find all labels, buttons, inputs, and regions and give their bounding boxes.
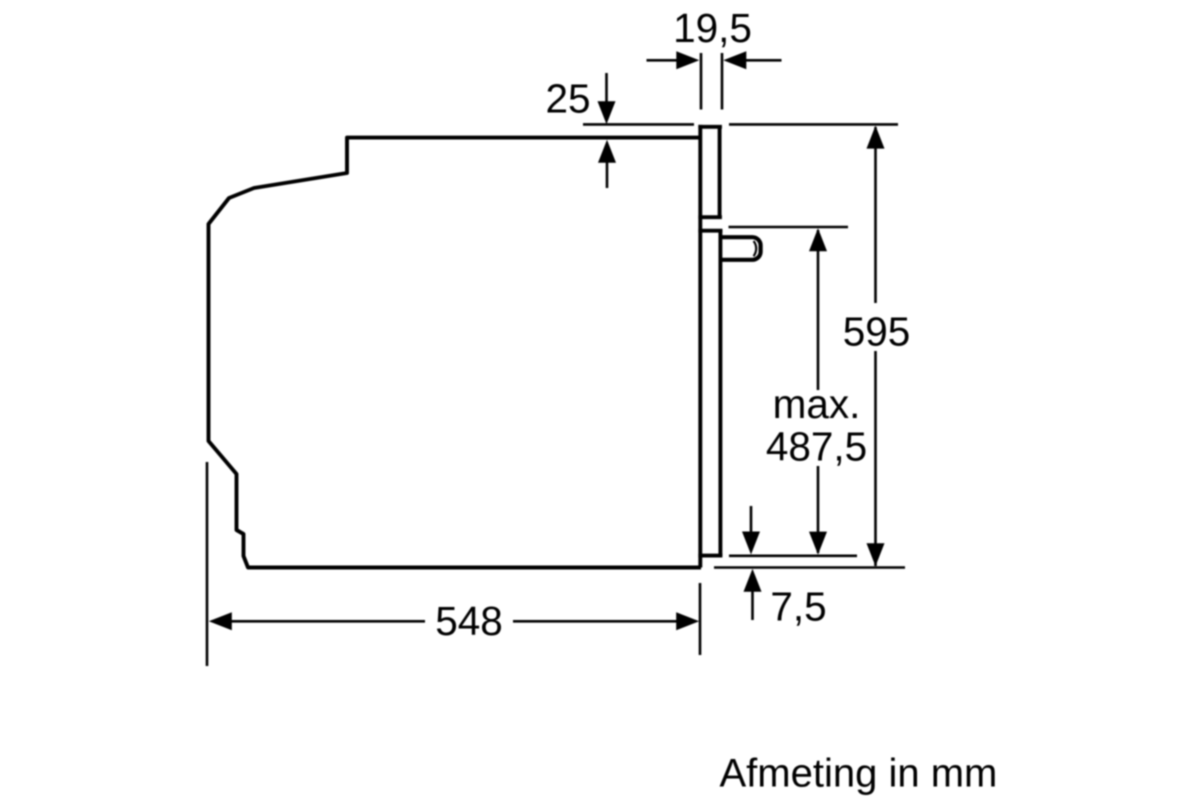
- max. 487,5 top extension line: [729, 226, 849, 229]
- svg-text:Afmeting in mm: Afmeting in mm: [720, 752, 998, 796]
- 19,5 left arrow shaft: [647, 59, 679, 62]
- door handle: [722, 237, 761, 260]
- 7,5 upper arrowhead (down): [742, 532, 760, 555]
- 595 bottom arrowhead (down): [867, 543, 885, 566]
- appliance body outline: [209, 138, 702, 568]
- svg-text:7,5: 7,5: [770, 584, 826, 630]
- 25 lower arrow shaft: [606, 160, 609, 188]
- 7,5 lower arrowhead (up): [744, 569, 762, 592]
- svg-text:25: 25: [545, 76, 590, 122]
- 487,5 dimension line upper segment: [817, 230, 820, 390]
- door upper section bottom seam: [698, 215, 722, 219]
- 487,5 top arrowhead (up): [809, 228, 827, 251]
- door front panel top edge: [698, 125, 722, 129]
- 19,5 right extension line: [721, 53, 724, 110]
- 19,5 left arrowhead: [676, 51, 699, 69]
- svg-text:19,5: 19,5: [673, 5, 752, 51]
- 7,5 lower arrow shaft: [751, 590, 754, 620]
- door handle end-cap inner arc: [754, 241, 757, 256]
- 487,5 dimension line lower segment: [817, 466, 820, 553]
- lower extension line at body bottom (7,5 lower reference): [714, 566, 905, 569]
- 595 dimension line lower segment: [874, 351, 877, 566]
- 19,5 right arrow shaft: [745, 59, 782, 62]
- lower extension line at door bottom (7,5 upper reference): [729, 554, 857, 557]
- svg-text:487,5: 487,5: [766, 424, 867, 470]
- 548 left extension line: [206, 462, 209, 666]
- 487,5 bottom arrowhead (down): [809, 532, 827, 555]
- svg-text:548: 548: [435, 598, 503, 644]
- 548 left arrowhead: [209, 612, 232, 630]
- 595 dimension line upper segment: [874, 127, 877, 303]
- door front panel left edge: [698, 125, 702, 568]
- 548 right extension line: [699, 583, 702, 655]
- door upper section right edge: [718, 125, 722, 217]
- 548 right arrowhead: [676, 612, 699, 630]
- 548 dimension line right segment: [513, 620, 678, 623]
- 25 upper arrow shaft: [605, 73, 608, 102]
- 548 dimension line left segment: [229, 620, 425, 623]
- door lower section top seam: [698, 229, 722, 233]
- extension line top (595 / 25 reference), left segment: [583, 123, 694, 126]
- 25 upper arrowhead (down): [598, 101, 616, 124]
- door bottom edge: [698, 554, 722, 558]
- door lower section right edge: [718, 229, 722, 556]
- 595 top arrowhead (up): [867, 126, 885, 149]
- svg-text:595: 595: [843, 309, 911, 355]
- extension line top (595 reference), right segment: [729, 123, 898, 126]
- 19,5 left extension line: [700, 53, 703, 110]
- 19,5 right arrowhead: [723, 51, 746, 69]
- svg-text:max.: max.: [773, 381, 861, 427]
- 25 lower arrowhead (up): [598, 140, 616, 163]
- 7,5 upper arrow shaft: [750, 506, 753, 534]
